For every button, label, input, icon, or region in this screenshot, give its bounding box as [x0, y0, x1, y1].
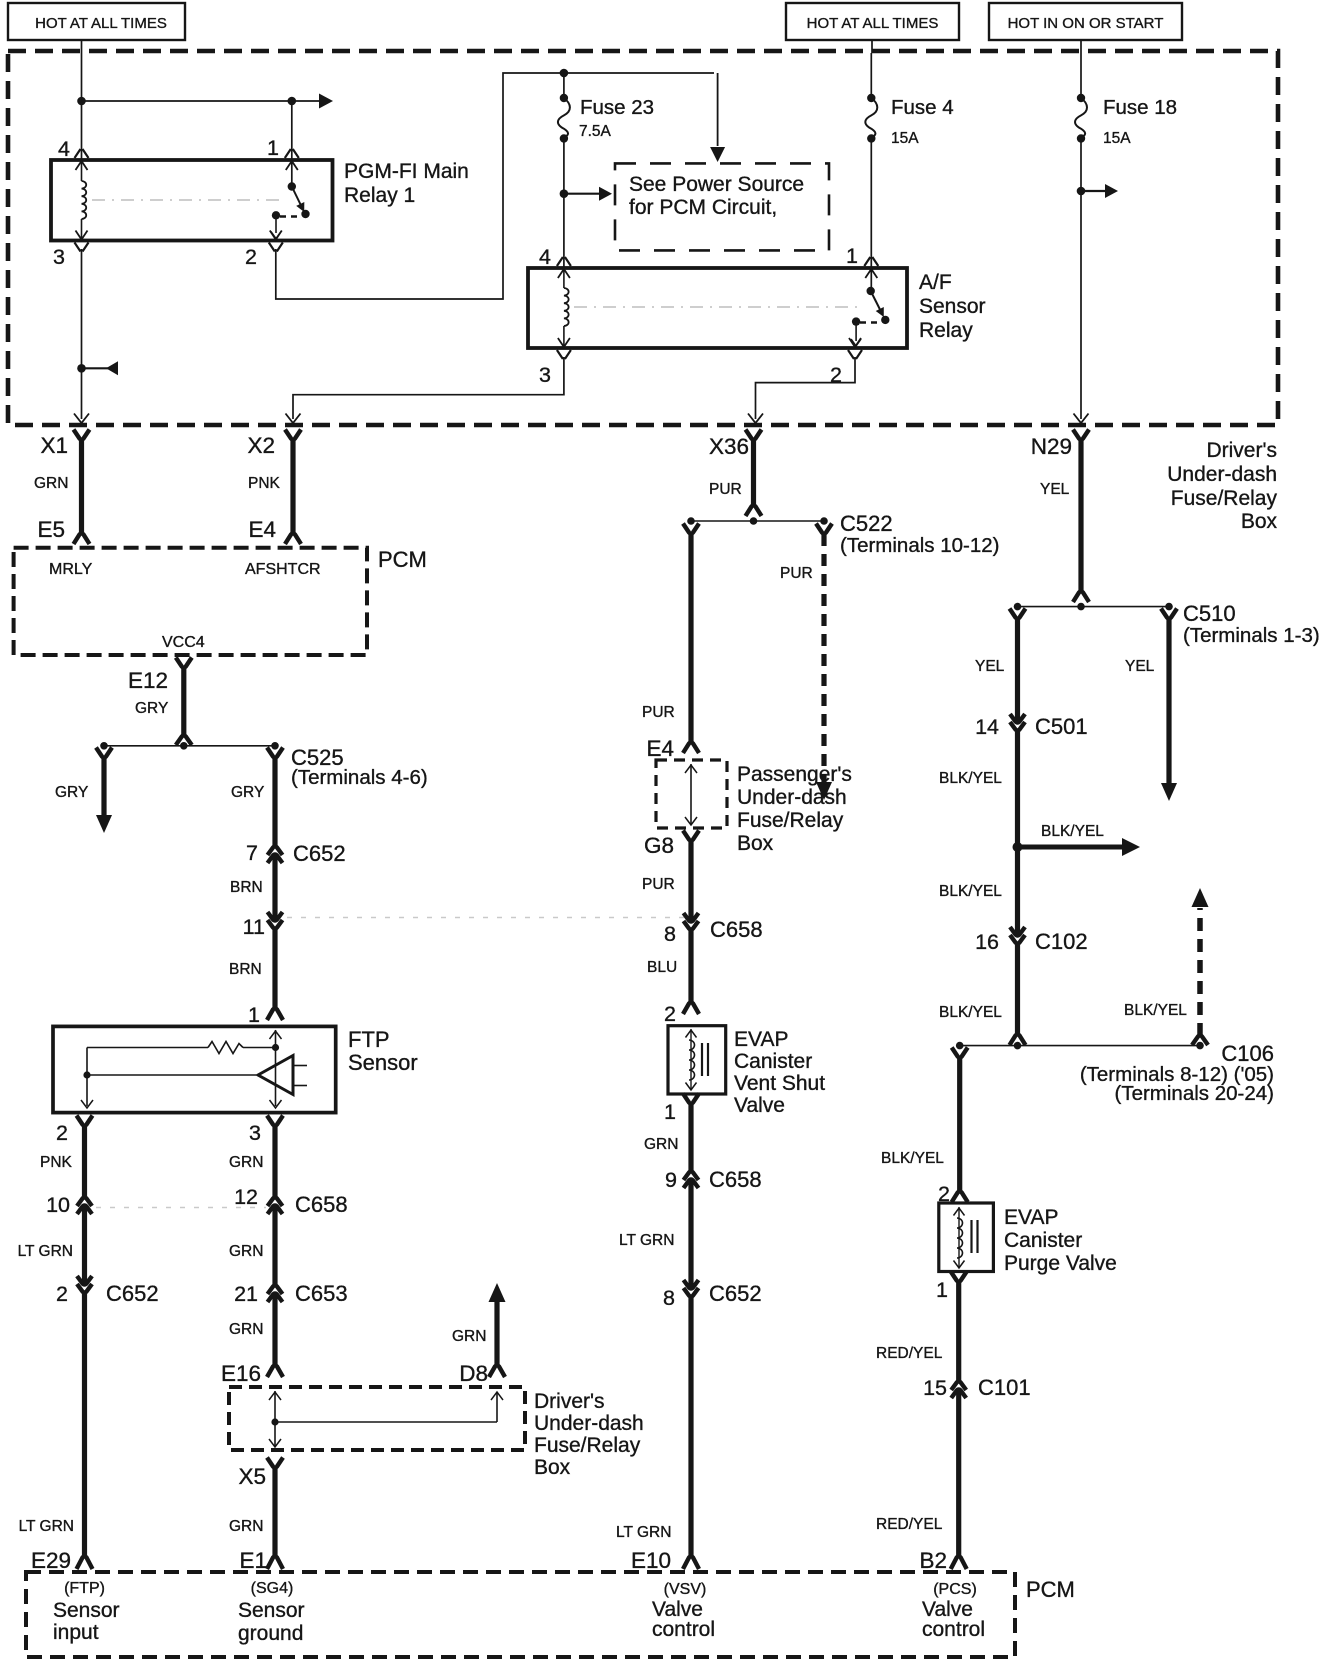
terminal GRY left branch	[96, 748, 112, 758]
wire RED/YEL to B2	[956, 1389, 961, 1556]
relay PGM-FI Main Relay 1 box	[51, 160, 333, 241]
pin 2 marker (A/F)	[848, 350, 862, 359]
terminal FTP pin 3	[267, 1116, 283, 1126]
svg-text:1: 1	[846, 244, 858, 268]
svg-text:9: 9	[665, 1168, 677, 1192]
terminal E29	[77, 1556, 93, 1569]
wire BRN to FTP pin 1	[272, 929, 277, 1008]
svg-text:Fuse/Relay: Fuse/Relay	[737, 809, 844, 832]
svg-text:Under-dash: Under-dash	[1167, 463, 1277, 486]
svg-text:1: 1	[248, 1003, 260, 1027]
fuse 4 wire lower to A/F relay pin 1	[870, 139, 872, 269]
svg-text:MRLY: MRLY	[49, 561, 93, 578]
wire PUR to E4 (passenger box)	[688, 534, 693, 742]
wire PNK X2-E4	[290, 440, 295, 533]
arrow into border at X36	[748, 414, 763, 424]
wire RED/YEL	[956, 1282, 961, 1381]
terminal C510 right branch	[1161, 609, 1177, 619]
svg-text:D8: D8	[459, 1361, 488, 1386]
terminal purge valve pin 1	[951, 1272, 967, 1282]
svg-text:EVAP: EVAP	[734, 1028, 788, 1051]
svg-text:4: 4	[539, 245, 551, 269]
svg-text:2: 2	[245, 245, 257, 269]
relay coil (A/F)	[563, 268, 565, 288]
svg-text:3: 3	[249, 1121, 261, 1145]
svg-text:for PCM Circuit,: for PCM Circuit,	[629, 196, 777, 219]
wire stub from center HOT label	[871, 40, 873, 53]
connector 16 C102	[1010, 927, 1025, 936]
svg-text:GRN: GRN	[34, 475, 68, 492]
svg-text:8: 8	[664, 922, 676, 946]
svg-text:HOT AT ALL TIMES: HOT AT ALL TIMES	[35, 15, 167, 32]
wire branch with arrow (to other circuit)	[292, 100, 324, 102]
terminal FTP pin 1	[267, 1008, 283, 1020]
svg-text:C102: C102	[1035, 929, 1088, 954]
wire BLU	[688, 930, 693, 1002]
power label HOT AT ALL TIMES (left)	[8, 3, 185, 40]
svg-text:Under-dash: Under-dash	[737, 786, 847, 809]
svg-text:E4: E4	[248, 517, 276, 542]
relay switch (PGM-FI)	[291, 160, 293, 187]
svg-text:1: 1	[936, 1278, 948, 1302]
arrow into border at N29	[1074, 414, 1089, 424]
pin 4 marker	[75, 149, 89, 158]
arrow into border at X2	[286, 414, 301, 424]
svg-text:C653: C653	[295, 1281, 348, 1306]
svg-text:(Terminals 1-3): (Terminals 1-3)	[1183, 624, 1320, 647]
fuse 18	[1077, 94, 1085, 102]
svg-text:YEL: YEL	[1125, 658, 1155, 675]
svg-text:Sensor: Sensor	[53, 1599, 120, 1622]
wire BLK/YEL	[1015, 731, 1020, 936]
svg-text:GRY: GRY	[231, 784, 264, 801]
svg-text:X36: X36	[709, 434, 749, 459]
relay A/F Sensor Relay box	[528, 268, 907, 348]
wire GRN to D8 with arrow	[489, 1283, 506, 1302]
wire LT GRN to E10	[688, 1297, 693, 1556]
svg-text:PUR: PUR	[709, 481, 742, 498]
connector 7 C652	[268, 854, 283, 863]
wire relay pin 3 to terminal X1	[81, 249, 83, 419]
svg-text:LT GRN: LT GRN	[619, 1232, 674, 1249]
FTP internal pin1 line	[275, 1030, 277, 1106]
svg-text:4: 4	[58, 137, 70, 161]
svg-text:PUR: PUR	[780, 565, 813, 582]
relay internal dash-dot line (A/F)	[574, 306, 858, 308]
wire PUR G8 down	[688, 841, 693, 922]
svg-text:15A: 15A	[891, 130, 919, 147]
svg-text:10: 10	[46, 1193, 70, 1217]
terminal E4	[285, 533, 301, 544]
svg-text:A/F: A/F	[919, 271, 952, 294]
junction dot on pin4 wire	[77, 97, 86, 106]
wire YEL with arrow down (C510)	[1166, 619, 1171, 783]
wire BLK/YEL dashed with arrow up	[1197, 908, 1203, 1036]
junction dot with arrow into note box	[560, 189, 569, 198]
internal link E4-G8	[690, 764, 692, 824]
wire from border to relay pin 4	[81, 53, 83, 160]
svg-text:Fuse/Relay: Fuse/Relay	[534, 1434, 641, 1457]
wire PNK pin2 down	[82, 1126, 87, 1197]
svg-text:PNK: PNK	[40, 1154, 73, 1171]
svg-text:LT GRN: LT GRN	[18, 1243, 73, 1260]
terminal vent valve pin 2	[683, 1002, 699, 1014]
svg-text:Valve: Valve	[734, 1094, 785, 1117]
passenger's under-dash fuse/relay box (dashed)	[656, 760, 727, 828]
svg-text:Relay: Relay	[919, 319, 973, 342]
svg-text:GRN: GRN	[644, 1136, 678, 1153]
svg-text:15A: 15A	[1103, 130, 1131, 147]
FTP internal pin2 line	[86, 1048, 88, 1107]
svg-text:Sensor: Sensor	[348, 1050, 418, 1075]
wire GRN vent valve down	[688, 1104, 693, 1171]
PCM box (bottom, dashed)	[26, 1572, 1015, 1657]
svg-text:1: 1	[664, 1100, 676, 1124]
svg-text:14: 14	[975, 715, 999, 739]
terminal purge valve pin 2	[952, 1191, 968, 1202]
svg-text:Driver's: Driver's	[1206, 439, 1277, 462]
svg-text:(SG4): (SG4)	[251, 1580, 294, 1597]
svg-text:(FTP): (FTP)	[64, 1580, 105, 1597]
svg-text:GRN: GRN	[229, 1243, 263, 1260]
svg-text:7: 7	[246, 841, 258, 865]
svg-text:Box: Box	[534, 1456, 571, 1479]
wire BLK/YEL to purge valve	[957, 1058, 962, 1191]
terminal C510 left branch	[1010, 609, 1026, 619]
connector 8 C652	[684, 1280, 699, 1289]
junction line C106	[960, 1045, 1200, 1047]
wire LT GRN	[82, 1205, 87, 1285]
svg-text:E12: E12	[128, 668, 168, 693]
wire GRN	[272, 1205, 277, 1285]
junction line X36	[691, 520, 824, 522]
connector 15 C101	[951, 1389, 966, 1398]
wire GRN X1-E5	[79, 440, 84, 533]
terminal C522	[816, 524, 832, 534]
svg-text:BRN: BRN	[230, 879, 263, 896]
fuse F23 wire upper	[563, 73, 565, 98]
svg-text:LT GRN: LT GRN	[616, 1524, 671, 1541]
svg-text:RED/YEL: RED/YEL	[876, 1516, 943, 1533]
svg-text:B2: B2	[919, 1548, 947, 1573]
svg-text:(Terminals 4-6): (Terminals 4-6)	[291, 766, 428, 789]
svg-text:Driver's: Driver's	[534, 1390, 605, 1413]
svg-text:2: 2	[56, 1282, 68, 1306]
svg-text:YEL: YEL	[975, 658, 1005, 675]
connector 9 C658	[684, 1179, 699, 1188]
svg-text:GRN: GRN	[452, 1328, 486, 1345]
connector 21 C653	[268, 1293, 283, 1302]
arrow into border at X1	[74, 414, 89, 424]
svg-text:LT GRN: LT GRN	[19, 1518, 74, 1535]
wire junction to branch arrow	[82, 100, 292, 102]
svg-text:PGM-FI Main: PGM-FI Main	[344, 160, 469, 183]
svg-text:PCM: PCM	[1026, 1577, 1075, 1602]
svg-text:C652: C652	[293, 841, 346, 866]
svg-text:control: control	[922, 1618, 985, 1641]
svg-text:HOT AT ALL TIMES: HOT AT ALL TIMES	[807, 15, 939, 32]
svg-text:BLK/YEL: BLK/YEL	[881, 1150, 944, 1167]
svg-text:input: input	[53, 1621, 99, 1644]
svg-text:Purge Valve: Purge Valve	[1004, 1252, 1117, 1275]
svg-text:(VSV): (VSV)	[664, 1581, 707, 1598]
svg-text:Sensor: Sensor	[919, 295, 986, 318]
svg-text:E5: E5	[37, 517, 65, 542]
note box See Power Source (dashed)	[615, 163, 829, 250]
svg-text:BLU: BLU	[647, 959, 677, 976]
fuse 23	[560, 94, 568, 102]
svg-text:Relay 1: Relay 1	[344, 184, 415, 207]
relay coil (PGM-FI)	[81, 160, 83, 181]
svg-text:X2: X2	[247, 433, 275, 458]
fuse F4 wire from border	[870, 53, 872, 98]
svg-text:(Terminals 20-24): (Terminals 20-24)	[1115, 1082, 1275, 1105]
svg-text:BLK/YEL: BLK/YEL	[939, 770, 1002, 787]
svg-text:C658: C658	[710, 917, 763, 942]
wire GRN to E16	[272, 1293, 277, 1365]
wire A/F pin 2 to terminal X36	[756, 357, 856, 419]
svg-text:BLK/YEL: BLK/YEL	[939, 883, 1002, 900]
svg-text:ground: ground	[238, 1622, 303, 1645]
connector 2 C652	[77, 1276, 92, 1285]
wire PUR X36 down	[751, 440, 756, 505]
terminal at GRY junction	[176, 735, 192, 745]
svg-text:PUR: PUR	[642, 876, 675, 893]
svg-text:12: 12	[234, 1185, 258, 1209]
svg-text:C652: C652	[709, 1281, 762, 1306]
pin 3 marker (A/F)	[557, 350, 571, 359]
relay switch (A/F)	[870, 268, 872, 291]
svg-text:Under-dash: Under-dash	[534, 1412, 644, 1435]
fuse 4	[867, 94, 875, 102]
purge valve internals	[958, 1207, 960, 1267]
pin 3 marker	[75, 243, 89, 252]
svg-text:16: 16	[975, 930, 999, 954]
EVAP canister vent shut valve box	[668, 1026, 726, 1094]
wire PUR dashed with arrow (C522)	[821, 534, 826, 782]
svg-text:E29: E29	[31, 1548, 71, 1573]
terminal X36 branch left	[683, 524, 699, 534]
svg-text:Passenger's: Passenger's	[737, 763, 852, 786]
svg-text:PNK: PNK	[248, 475, 281, 492]
svg-text:8: 8	[663, 1286, 675, 1310]
svg-text:(Terminals 10-12): (Terminals 10-12)	[840, 534, 1000, 557]
terminal E16	[267, 1365, 283, 1377]
terminal at C510 junction	[1073, 591, 1089, 602]
wire stub from right HOT label	[1080, 40, 1082, 53]
junction dot with branch stub	[77, 364, 86, 373]
wire BRN	[272, 854, 277, 921]
svg-text:YEL: YEL	[1040, 481, 1070, 498]
svg-text:C101: C101	[978, 1375, 1031, 1400]
pin 2 marker	[269, 243, 283, 252]
svg-text:GRN: GRN	[229, 1518, 263, 1535]
svg-text:HOT IN ON OR START: HOT IN ON OR START	[1008, 15, 1164, 32]
connector 11 (C658)	[268, 912, 283, 921]
PCM box (top, dashed)	[14, 548, 367, 655]
svg-text:Fuse/Relay: Fuse/Relay	[1171, 487, 1278, 510]
power label HOT IN ON OR START	[989, 3, 1182, 40]
junction line GRY	[104, 745, 275, 747]
svg-text:E10: E10	[631, 1548, 671, 1573]
terminal E10	[683, 1556, 699, 1569]
wire GRY to connector C652	[272, 758, 277, 846]
terminal E5	[74, 533, 90, 544]
terminal D8	[489, 1365, 505, 1377]
terminal C106 left branch	[952, 1048, 968, 1058]
svg-text:See Power Source: See Power Source	[629, 173, 804, 196]
svg-text:BLK/YEL: BLK/YEL	[1041, 823, 1104, 840]
connector 8 C658	[684, 913, 699, 922]
svg-text:BRN: BRN	[229, 961, 262, 978]
terminal at C522 junction	[746, 505, 762, 516]
svg-text:GRN: GRN	[229, 1321, 263, 1338]
svg-text:(PCS): (PCS)	[933, 1581, 977, 1598]
svg-text:BLK/YEL: BLK/YEL	[939, 1004, 1002, 1021]
fuse F18 wire from border	[1080, 53, 1082, 98]
wire BLK/YEL to C106	[1015, 944, 1020, 1034]
svg-text:FTP: FTP	[348, 1027, 390, 1052]
terminal X36	[746, 430, 762, 440]
wire LT GRN	[688, 1179, 693, 1289]
wire branch down to relay pin 1	[291, 101, 293, 160]
fuse 18 wire lower to terminal N29	[1080, 139, 1082, 420]
svg-text:1: 1	[267, 136, 279, 160]
terminal N29	[1073, 430, 1089, 440]
FTP internal buffer amp	[87, 1074, 256, 1076]
svg-text:GRY: GRY	[55, 784, 88, 801]
wire LT GRN to E29	[82, 1293, 87, 1556]
svg-text:Sensor: Sensor	[238, 1599, 305, 1622]
svg-text:E4: E4	[646, 736, 674, 761]
svg-text:3: 3	[539, 363, 551, 387]
svg-text:C522: C522	[840, 511, 893, 536]
svg-text:Fuse 23: Fuse 23	[580, 96, 654, 119]
svg-text:X1: X1	[40, 433, 68, 458]
wire GRY left branch with arrow	[101, 758, 106, 816]
svg-text:E1: E1	[239, 1548, 267, 1573]
terminal X5	[267, 1458, 283, 1468]
svg-text:2: 2	[56, 1121, 68, 1145]
wire YEL to C501	[1015, 619, 1020, 723]
wire A/F pin 3 to terminal X2	[293, 357, 564, 419]
wire GRN X5 to E1	[272, 1468, 277, 1556]
svg-text:Fuse 18: Fuse 18	[1103, 96, 1177, 119]
junction dot at pin1 branch	[288, 97, 297, 106]
svg-text:control: control	[652, 1618, 715, 1641]
svg-text:Fuse 4: Fuse 4	[891, 96, 954, 119]
EVAP canister purge valve box	[939, 1203, 994, 1272]
pin 4 marker (A/F)	[557, 257, 571, 266]
svg-text:15: 15	[923, 1376, 947, 1400]
svg-text:Vent Shut: Vent Shut	[734, 1072, 825, 1095]
terminal at C106 junction	[1010, 1034, 1026, 1045]
svg-text:E16: E16	[221, 1361, 261, 1386]
svg-text:G8: G8	[644, 833, 674, 858]
svg-text:C658: C658	[295, 1192, 348, 1217]
svg-text:Box: Box	[737, 832, 774, 855]
relay internal dash-dot line (PGM-FI)	[92, 199, 282, 201]
terminal X2	[285, 430, 301, 440]
terminal E1	[267, 1556, 283, 1569]
svg-text:21: 21	[234, 1282, 258, 1306]
pin 1 marker	[285, 149, 299, 158]
junction dot fuse 23 top	[560, 69, 569, 78]
junction line N29	[1018, 606, 1170, 608]
link dotted line C658	[287, 917, 688, 919]
svg-text:Canister: Canister	[1004, 1229, 1082, 1252]
svg-text:11: 11	[243, 915, 265, 939]
svg-text:VCC4: VCC4	[162, 634, 205, 651]
terminal vent valve pin 1	[683, 1094, 699, 1104]
svg-text:RED/YEL: RED/YEL	[876, 1345, 943, 1362]
arrow wire into note box top	[717, 73, 719, 146]
terminal B2	[951, 1556, 967, 1569]
power label HOT AT ALL TIMES (center)	[786, 3, 959, 40]
junction dot with branch arrow	[1077, 187, 1086, 196]
wire stub from left HOT label	[81, 40, 83, 53]
svg-text:AFSHTCR: AFSHTCR	[245, 561, 321, 578]
junction dot with BLK/YEL branch arrow	[1013, 842, 1023, 852]
svg-text:PCM: PCM	[378, 547, 427, 572]
terminal E12	[176, 658, 192, 668]
connector 12 C658	[268, 1205, 283, 1214]
svg-text:Box: Box	[1241, 510, 1278, 533]
terminal C525	[267, 748, 283, 758]
svg-text:BLK/YEL: BLK/YEL	[1124, 1002, 1187, 1019]
driver's under-dash fuse/relay box (top, dashed)	[8, 51, 1278, 425]
svg-text:3: 3	[53, 245, 65, 269]
svg-text:C652: C652	[106, 1281, 159, 1306]
svg-text:PUR: PUR	[642, 704, 675, 721]
FTP Sensor box	[53, 1026, 336, 1112]
terminal G8	[683, 831, 699, 841]
wire relay pin 2 loop to power-source line	[276, 73, 714, 299]
svg-text:GRY: GRY	[135, 700, 168, 717]
FTP internal resistor	[87, 1047, 208, 1049]
driver's under-dash fuse/relay box (bottom, dashed)	[229, 1387, 525, 1450]
wire YEL N29 down	[1078, 440, 1083, 591]
terminal FTP pin 2	[77, 1116, 93, 1126]
connector 14 C501	[1010, 714, 1025, 723]
pin 1 marker (A/F)	[864, 257, 878, 266]
svg-text:2: 2	[664, 1002, 676, 1026]
wire GRY E12 down	[181, 668, 186, 735]
terminal E4 (passenger box)	[683, 742, 699, 753]
wire GRN pin3 down	[272, 1126, 277, 1197]
svg-text:7.5A: 7.5A	[579, 123, 612, 140]
svg-text:EVAP: EVAP	[1004, 1206, 1058, 1229]
link dotted line C658 lower	[96, 1207, 266, 1209]
svg-text:C658: C658	[709, 1167, 762, 1192]
vent valve internals	[690, 1029, 692, 1089]
connector 10 (C658)	[77, 1205, 92, 1214]
svg-text:C510: C510	[1183, 601, 1236, 626]
svg-text:X5: X5	[238, 1464, 266, 1489]
svg-text:GRN: GRN	[229, 1154, 263, 1171]
fuse 23 wire lower to A/F relay pin 4	[563, 139, 565, 269]
terminal X1	[74, 430, 90, 440]
svg-text:N29: N29	[1031, 434, 1072, 459]
svg-text:Canister: Canister	[734, 1050, 812, 1073]
internal link E16-X5-D8	[274, 1391, 276, 1446]
svg-text:C501: C501	[1035, 714, 1088, 739]
